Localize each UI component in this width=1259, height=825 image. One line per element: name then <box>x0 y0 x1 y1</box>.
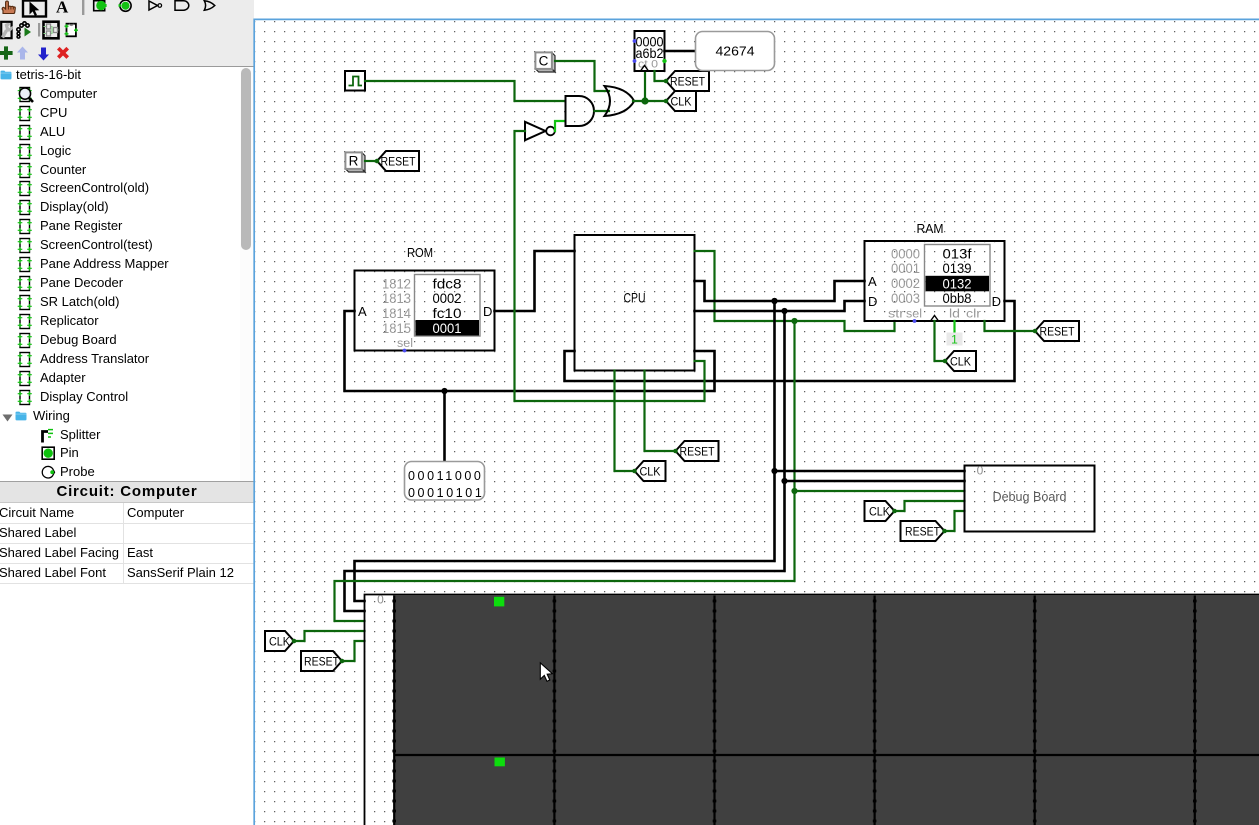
button R <box>345 152 365 172</box>
ROM label <box>407 245 433 260</box>
svg-text:CLK: CLK <box>671 95 693 109</box>
display indicator LED 2 <box>495 758 505 767</box>
svg-text:CLK: CLK <box>269 635 291 649</box>
tunnel RESET display <box>301 651 344 671</box>
svg-text:clr: clr <box>966 309 981 321</box>
output pin icon <box>119 0 132 11</box>
svg-text:RAM: RAM <box>917 221 944 236</box>
node junction bus A top <box>771 298 777 304</box>
tunnel RESET debug <box>901 521 947 541</box>
OR gate icon <box>204 1 215 10</box>
svg-text:0001: 0001 <box>891 261 920 276</box>
node junction address bus <box>441 388 447 394</box>
pin dot counter left lower <box>633 59 637 63</box>
wire ROM D to CPU <box>495 251 575 311</box>
ROM U3 <box>355 271 495 351</box>
svg-text:ct 0: ct 0 <box>638 59 658 71</box>
clock input CLK1 <box>345 71 365 91</box>
node junction bus D debug <box>781 478 787 484</box>
tunnel RESET top <box>664 71 709 91</box>
svg-text:str: str <box>888 309 904 321</box>
svg-text:CLK: CLK <box>640 465 662 479</box>
svg-text:0000: 0000 <box>891 247 920 262</box>
node junction str wire <box>791 318 797 324</box>
svg-text:A: A <box>358 304 367 319</box>
tunnel RESET ram <box>1033 321 1079 341</box>
svg-text:0: 0 <box>977 464 984 478</box>
tunnel CLK ram <box>943 351 976 371</box>
svg-text:0139: 0139 <box>943 261 972 276</box>
wire bus D to debug board <box>785 480 965 483</box>
simulate hierarchy icon <box>17 22 31 38</box>
debug board U6 <box>965 464 1095 532</box>
wire AND to OR gate <box>595 110 610 112</box>
svg-text:0001: 0001 <box>433 321 462 336</box>
wire C to OR gate <box>555 61 609 91</box>
svg-text:00010101: 00010101 <box>408 486 484 500</box>
svg-text:ROM: ROM <box>407 245 433 260</box>
svg-text:0002: 0002 <box>891 276 920 291</box>
node junction RAM D wire <box>781 308 787 314</box>
probe binary instruction <box>405 462 485 501</box>
node junction OR output <box>641 97 648 104</box>
svg-text:RESET: RESET <box>680 445 715 459</box>
svg-text:00011000: 00011000 <box>408 469 484 483</box>
wire NOT output to AND gate <box>555 121 565 131</box>
tunnel RESET cpu <box>673 441 718 461</box>
NOT gate U8 <box>525 122 555 140</box>
separator 2 <box>38 23 40 37</box>
attribute header <box>0 481 254 503</box>
svg-text:RESET: RESET <box>1040 325 1075 339</box>
wire CLK tunnel to display <box>294 631 365 641</box>
wire bus A to display <box>355 301 775 601</box>
node junction bus str debug <box>791 488 797 494</box>
explorer tree <box>0 67 254 481</box>
wire RAM clr to RESET tunnel <box>985 321 1036 331</box>
svg-text:sel: sel <box>397 338 413 350</box>
canvas focus border <box>254 19 1259 825</box>
svg-text:42674: 42674 <box>716 45 755 59</box>
svg-text:RESET: RESET <box>381 155 416 169</box>
NOT gate icon <box>149 1 162 10</box>
svg-text:fdc8: fdc8 <box>433 277 462 292</box>
RAM label <box>917 221 944 236</box>
svg-text:1813: 1813 <box>382 291 411 306</box>
value label 1 on ld pin <box>947 333 963 347</box>
CPU U4 <box>575 235 695 371</box>
mouse cursor <box>540 663 552 682</box>
canvas background <box>255 20 1259 825</box>
node junction bus A debug <box>771 468 777 474</box>
wire CPU to CLK tunnel <box>615 371 635 472</box>
toolbar <box>0 0 254 67</box>
svg-text:CLK: CLK <box>869 505 891 519</box>
display indicator LED 1 <box>494 597 504 607</box>
wire RESET tunnel to display <box>342 641 365 661</box>
move up button (disabled) <box>17 47 28 60</box>
wire CPU store to RAM str <box>695 251 895 331</box>
wire bus str to debug board <box>795 490 965 492</box>
svg-text:1: 1 <box>951 333 958 347</box>
wire clock to AND gate <box>365 81 565 101</box>
svg-text:Debug Board: Debug Board <box>993 489 1067 504</box>
svg-text:D: D <box>868 294 877 309</box>
wire R to RESET tunnel <box>365 160 377 162</box>
svg-text:CLK: CLK <box>950 355 972 369</box>
svg-text:fc10: fc10 <box>433 306 462 321</box>
wire ROM A address bus <box>345 311 715 391</box>
wire CLK tunnel to debug board <box>895 501 965 511</box>
button C <box>535 52 555 72</box>
select tool (active, boxed) <box>23 1 46 17</box>
svg-text:0bb8: 0bb8 <box>943 291 972 306</box>
OR gate U2 <box>605 86 635 116</box>
wire bus str to display <box>335 321 795 621</box>
svg-text:0002: 0002 <box>433 291 462 306</box>
tunnel RESET R <box>375 151 419 171</box>
wire junction to counter clock pin <box>644 71 646 101</box>
svg-text:sel: sel <box>906 309 922 321</box>
node junction RAM A wire <box>771 298 777 304</box>
wire RAM clk to CLK tunnel <box>935 321 946 361</box>
counter C1 <box>635 31 665 71</box>
svg-text:A: A <box>868 274 877 289</box>
move down button <box>38 48 49 61</box>
add circuit button (green plus) <box>0 46 13 59</box>
AND gate icon <box>175 1 189 10</box>
separator <box>82 0 84 15</box>
wire RAM ld constant <box>953 321 955 332</box>
svg-text:D: D <box>992 294 1001 309</box>
new circuit icon <box>65 24 79 37</box>
project toolbar icon <box>44 22 59 39</box>
svg-text:CPU: CPU <box>624 290 646 306</box>
svg-text:013f: 013f <box>943 247 972 262</box>
wire junction to binary probe <box>443 391 446 461</box>
svg-text:1814: 1814 <box>382 306 411 321</box>
svg-text:0132: 0132 <box>943 277 972 292</box>
wrench tool icon <box>1 22 12 38</box>
wire CPU to RESET tunnel <box>645 371 676 452</box>
poke tool hand icon <box>2 1 15 14</box>
attribute table <box>0 503 254 583</box>
svg-text:R: R <box>349 153 359 168</box>
wire counter to probe <box>665 50 697 53</box>
wire CPU address to RAM A <box>695 281 865 301</box>
svg-text:D: D <box>483 304 492 319</box>
tunnel CLK top <box>664 91 696 111</box>
pin dot counter left upper <box>633 39 637 43</box>
wire counter to RESET tunnel <box>655 71 667 81</box>
svg-text:0: 0 <box>377 593 384 607</box>
RAM U5 <box>865 241 1005 321</box>
tunnel CLK cpu <box>632 461 665 481</box>
remove circuit button (red X) <box>57 47 69 59</box>
wire bus D to display <box>345 311 785 611</box>
svg-text:RESET: RESET <box>905 525 940 539</box>
AND gate U1 <box>566 96 595 126</box>
wire OR output to CLK tunnel <box>633 100 666 102</box>
probe 42674 <box>696 32 775 71</box>
display screen U7 <box>365 593 1259 825</box>
svg-text:1812: 1812 <box>382 277 411 292</box>
pin dot RAM sel <box>913 319 917 323</box>
input pin icon <box>94 1 107 11</box>
svg-text:ld: ld <box>949 309 960 321</box>
pin dot ROM sel <box>403 349 407 353</box>
wire bus A to debug board <box>775 470 965 473</box>
svg-text:1815: 1815 <box>382 321 411 336</box>
wire CPU to NOT gate input <box>515 131 705 401</box>
wire CPU data in from RAM <box>565 301 1015 381</box>
svg-text:RESET: RESET <box>670 75 705 89</box>
svg-text:C: C <box>539 53 549 68</box>
pin dot counter right carry <box>662 59 666 63</box>
tunnel CLK debug <box>865 501 897 521</box>
svg-text:RESET: RESET <box>304 655 339 669</box>
tunnel CLK display <box>265 631 296 651</box>
wire RESET tunnel to debug board <box>945 511 965 531</box>
svg-text:0003: 0003 <box>891 291 920 306</box>
wire CPU data out to RAM D <box>695 301 865 311</box>
